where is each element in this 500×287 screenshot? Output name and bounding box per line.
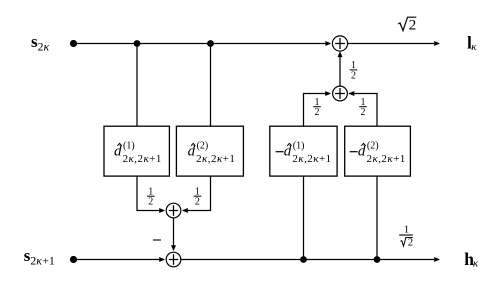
svg-text:2κ+1: 2κ+1 [30,253,55,267]
svg-text:2: 2 [148,197,153,208]
svg-text:κ: κ [473,257,479,269]
svg-text:2: 2 [409,18,417,34]
svg-text:2: 2 [195,197,200,208]
svg-text:κ: κ [471,41,477,53]
svg-text:2: 2 [361,107,366,118]
svg-text:(1): (1) [123,141,135,152]
svg-text:2: 2 [315,107,320,118]
svg-text:2κ,2κ+1: 2κ,2κ+1 [123,153,162,165]
svg-text:(2): (2) [197,141,209,152]
svg-text:(2): (2) [367,141,379,152]
svg-text:2κ: 2κ [38,40,50,54]
svg-text:2κ,2κ+1: 2κ,2κ+1 [292,153,331,165]
svg-text:2κ,2κ+1: 2κ,2κ+1 [196,153,235,165]
svg-text:2: 2 [408,238,413,249]
svg-text:1: 1 [404,224,409,235]
svg-text:2: 2 [351,70,356,81]
svg-text:2κ,2κ+1: 2κ,2κ+1 [367,153,406,165]
svg-text:(1): (1) [293,141,305,152]
